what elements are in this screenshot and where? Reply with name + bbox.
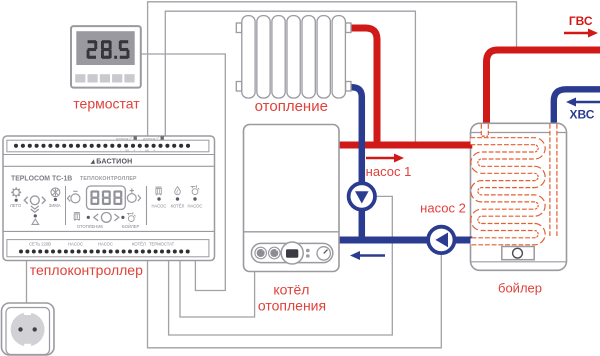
kotel gauge xyxy=(317,247,330,260)
kotel control pill xyxy=(251,243,332,262)
wire sensor2 controller-to-supply-pipe xyxy=(165,11,415,143)
svg-text:отопление: отопление xyxy=(255,98,328,115)
radiator sections xyxy=(242,16,255,98)
svg-text:ХВС: ХВС xyxy=(570,108,595,122)
pipe blue radiator return xyxy=(348,87,362,240)
svg-text:НАСОС: НАСОС xyxy=(188,204,203,209)
svg-text:бойлер: бойлер xyxy=(498,281,542,296)
svg-text:ГВС: ГВС xyxy=(569,14,593,28)
divider left xyxy=(65,186,67,225)
kotel knob1 xyxy=(255,247,267,259)
arrow GVS (red right) xyxy=(564,29,598,38)
pump P2 nasos2 xyxy=(428,227,454,253)
svg-text:отопления: отопления xyxy=(258,298,326,314)
right icons: nasos kotel nasos xyxy=(156,185,200,195)
boiler XVS dip tube (dashed) xyxy=(549,124,557,237)
pipe red GVS from boiler top xyxy=(487,50,600,126)
boiler flange xyxy=(502,247,534,260)
svg-text:КОТЁЛ: КОТЁЛ xyxy=(171,204,185,209)
svg-text:ЛЕТО: ЛЕТО xyxy=(10,203,22,208)
minus button xyxy=(67,191,80,203)
pipe red supply kotel-to-boiler xyxy=(339,142,472,149)
OUTLET (rozetka) xyxy=(2,303,55,355)
mode row under display xyxy=(74,212,136,222)
svg-text:ТЕРМОСТАТ: ТЕРМОСТАТ xyxy=(149,242,175,247)
svg-text:теплоконтроллер: теплоконтроллер xyxy=(30,262,143,278)
kotel indicator pills xyxy=(306,249,310,252)
triangle warning xyxy=(32,219,39,224)
snowflake icon xyxy=(51,188,60,197)
svg-text:БОЙЛЕР: БОЙЛЕР xyxy=(122,224,140,229)
wire mains outlet xyxy=(26,258,28,304)
svg-text:термостат: термостат xyxy=(73,96,140,112)
controller sensor terminal tiny labels xyxy=(116,136,160,153)
pipe stub blue into boiler wall xyxy=(467,237,472,244)
radiator left stubs xyxy=(236,23,241,33)
sun icon xyxy=(13,189,19,195)
pump P1 nasos1 xyxy=(349,183,375,209)
boiler GVS outlet stub (dashed) xyxy=(481,124,489,135)
PIPES xyxy=(339,28,600,240)
svg-text:ок: ок xyxy=(125,147,129,152)
divider right xyxy=(146,186,148,225)
svg-text:БАСТИОН: БАСТИОН xyxy=(96,158,132,166)
pipe blue XVS cold water xyxy=(554,89,600,126)
svg-text:котёл: котёл xyxy=(273,282,309,298)
svg-text:ок: ок xyxy=(145,147,149,152)
controller top terminal dots xyxy=(14,144,190,148)
svg-text:датчик t°: датчик t° xyxy=(143,136,160,141)
controller left icon cluster (leto/zima selector) xyxy=(11,187,60,224)
svg-text:насос 2: насос 2 xyxy=(420,201,466,216)
svg-text:насос 1: насос 1 xyxy=(366,164,412,179)
wire thermostat xyxy=(141,54,225,291)
controller 888 xyxy=(90,190,122,205)
svg-text:НАСОС: НАСОС xyxy=(68,242,83,247)
arrow flow nasos1 (red right) xyxy=(366,154,404,163)
pipe red radiator hot xyxy=(348,28,377,145)
kotel knob2 xyxy=(269,247,281,259)
BASTION logo band xyxy=(91,158,133,166)
radiator right stubs xyxy=(346,23,351,33)
svg-text:ОТОПЛЕНИЕ: ОТОПЛЕНИЕ xyxy=(77,224,103,229)
svg-text:КОТЁЛ: КОТЁЛ xyxy=(132,242,146,247)
wire boiler (kotel) xyxy=(180,258,255,317)
RADIATOR otoplenie xyxy=(236,16,351,98)
plus button xyxy=(127,188,140,202)
svg-text:СЕТЬ 220В: СЕТЬ 220В xyxy=(29,242,51,247)
thermostat buttons xyxy=(75,74,85,82)
svg-text:ТЕПЛОКОНТРОЛЛЕР: ТЕПЛОКОНТРОЛЛЕР xyxy=(80,176,137,182)
wire pump2 xyxy=(148,254,442,348)
double chevron down xyxy=(31,206,39,209)
wire pump1 xyxy=(169,196,393,335)
arrow XVS (blue left) xyxy=(566,98,600,107)
svg-text:TEPLOCOM TC-1B: TEPLOCOM TC-1B xyxy=(11,176,72,183)
bottom terminal labels xyxy=(29,242,175,247)
controller display box xyxy=(87,186,126,209)
kotel display xyxy=(281,242,303,264)
selector circle xyxy=(30,196,39,205)
svg-text:НАСОС: НАСОС xyxy=(152,204,167,209)
thermostat 7-seg display 28.5 xyxy=(87,40,130,59)
KOTEL boiler body xyxy=(244,125,340,272)
svg-text:ЗИМА: ЗИМА xyxy=(49,203,61,208)
pipe stub red into boiler wall xyxy=(467,142,472,149)
arrow flow return (blue left) xyxy=(350,251,385,260)
svg-text:НАСОС: НАСОС xyxy=(98,242,113,247)
wire sensor1 controller-to-GVS-pipe xyxy=(148,2,517,136)
THERMOSTAT xyxy=(71,26,141,88)
controller bottom terminal dots xyxy=(19,250,190,254)
LABELS red xyxy=(30,96,542,314)
svg-text:датчик t°: датчик t° xyxy=(116,136,133,141)
boiler coil (dashed heat exchanger) xyxy=(471,124,554,241)
BOILER vodonagrevatel body xyxy=(471,123,567,270)
CONTROLLER TEPLOCOM xyxy=(3,136,215,261)
pipe blue return kotel-to-boiler xyxy=(339,237,471,244)
